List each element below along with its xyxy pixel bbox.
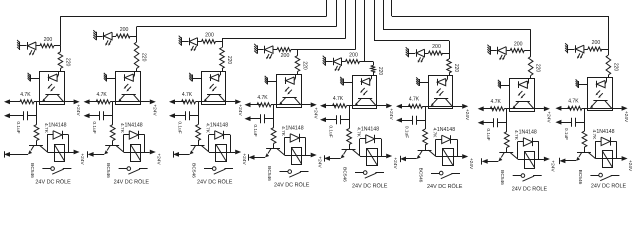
svg-text:4.7K: 4.7K [491, 99, 502, 105]
svg-text:0.1uF: 0.1uF [563, 128, 569, 140]
svg-text:24V DC RÖLE: 24V DC RÖLE [352, 182, 388, 189]
svg-text:+24V: +24V [151, 104, 157, 116]
svg-text:0.1uF: 0.1uF [252, 124, 258, 136]
svg-text:1N4148: 1N4148 [596, 129, 614, 135]
svg-text:4.7K: 4.7K [96, 92, 107, 98]
svg-text:0.1uF: 0.1uF [177, 121, 183, 133]
svg-text:24V DC RÖLE: 24V DC RÖLE [35, 178, 71, 185]
svg-text:24V DC RÖLE: 24V DC RÖLE [427, 183, 463, 190]
svg-text:220: 220 [226, 56, 232, 65]
svg-text:+24V: +24V [468, 158, 474, 170]
svg-text:1N4148: 1N4148 [519, 130, 537, 136]
svg-text:1N4148: 1N4148 [125, 123, 143, 129]
svg-text:+24V: +24V [388, 108, 394, 120]
svg-text:+24V: +24V [316, 156, 322, 168]
svg-text:200: 200 [432, 44, 441, 50]
svg-text:220: 220 [377, 67, 383, 76]
svg-text:1N4148: 1N4148 [361, 127, 379, 133]
svg-text:200: 200 [205, 33, 214, 39]
svg-text:BC546: BC546 [342, 167, 348, 182]
svg-text:4.7K: 4.7K [20, 92, 31, 98]
svg-text:1N4148: 1N4148 [210, 123, 228, 129]
svg-text:4.7K: 4.7K [182, 92, 193, 98]
svg-text:BC546: BC546 [29, 163, 35, 178]
svg-text:24V DC RÖLE: 24V DC RÖLE [512, 185, 548, 192]
svg-text:+24V: +24V [464, 109, 470, 121]
svg-text:200: 200 [44, 37, 53, 43]
svg-text:+24V: +24V [312, 107, 318, 119]
svg-text:BC546: BC546 [418, 168, 424, 183]
svg-text:4.7K: 4.7K [568, 99, 579, 105]
svg-text:220: 220 [302, 61, 308, 70]
svg-text:200: 200 [120, 27, 129, 33]
svg-text:24V DC RÖLE: 24V DC RÖLE [114, 178, 150, 185]
svg-text:+24V: +24V [392, 157, 398, 169]
svg-text:220: 220 [64, 58, 70, 67]
svg-text:220: 220 [535, 64, 541, 73]
svg-text:200: 200 [592, 40, 601, 46]
svg-text:1N4148: 1N4148 [48, 123, 66, 129]
svg-text:+24V: +24V [546, 111, 552, 123]
svg-text:220: 220 [141, 53, 147, 62]
svg-text:BC546: BC546 [266, 166, 272, 181]
svg-text:200: 200 [514, 42, 523, 48]
svg-text:+24V: +24V [627, 160, 633, 172]
svg-text:BC546: BC546 [105, 163, 111, 178]
svg-text:+24V: +24V [241, 153, 247, 165]
svg-text:+24V: +24V [550, 160, 556, 172]
svg-text:0.1uF: 0.1uF [328, 125, 334, 137]
svg-text:0.1uF: 0.1uF [15, 121, 21, 133]
svg-text:BC546: BC546 [577, 170, 583, 185]
svg-text:1N4148: 1N4148 [285, 126, 303, 132]
svg-text:+24V: +24V [623, 111, 629, 123]
svg-text:0.1uF: 0.1uF [485, 128, 491, 140]
svg-text:+24V: +24V [79, 153, 85, 165]
svg-text:24V DC RÖLE: 24V DC RÖLE [197, 178, 233, 185]
svg-text:BC546: BC546 [191, 163, 197, 178]
svg-text:220: 220 [612, 63, 618, 72]
svg-text:24V DC RÖLE: 24V DC RÖLE [274, 181, 310, 188]
svg-text:+24V: +24V [155, 153, 161, 165]
svg-text:200: 200 [281, 53, 290, 59]
svg-text:200: 200 [349, 53, 358, 59]
svg-text:0.1uF: 0.1uF [91, 121, 97, 133]
svg-text:4.7K: 4.7K [333, 96, 344, 102]
svg-text:0.1uF: 0.1uF [404, 126, 410, 138]
svg-text:24V DC RÖLE: 24V DC RÖLE [591, 182, 627, 189]
svg-text:1N4148: 1N4148 [437, 127, 455, 133]
svg-text:+24V: +24V [237, 104, 243, 116]
svg-text:+24V: +24V [75, 104, 81, 116]
svg-text:4.7K: 4.7K [257, 95, 268, 101]
svg-text:220: 220 [453, 64, 459, 73]
svg-text:BC546: BC546 [499, 170, 505, 185]
svg-text:4.7K: 4.7K [409, 97, 420, 103]
